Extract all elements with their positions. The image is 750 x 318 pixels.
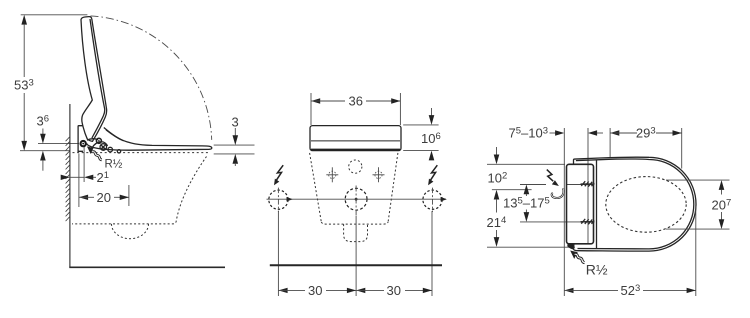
svg-text:523: 523 — [621, 283, 641, 298]
svg-text:R½: R½ — [586, 262, 608, 278]
svg-text:75–103: 75–103 — [509, 126, 549, 141]
svg-text:106: 106 — [421, 131, 441, 146]
svg-text:36: 36 — [37, 114, 50, 129]
svg-text:135–175: 135–175 — [503, 195, 550, 210]
svg-text:293: 293 — [636, 126, 656, 141]
svg-text:20: 20 — [97, 190, 111, 205]
svg-text:207: 207 — [712, 197, 732, 212]
svg-text:30: 30 — [308, 283, 322, 298]
svg-text:R½: R½ — [105, 158, 123, 170]
svg-text:36: 36 — [349, 94, 363, 109]
svg-text:21: 21 — [97, 170, 110, 185]
svg-text:214: 214 — [487, 215, 507, 230]
svg-text:533: 533 — [14, 78, 34, 93]
svg-text:3: 3 — [232, 115, 239, 130]
svg-text:102: 102 — [488, 170, 508, 185]
svg-text:30: 30 — [387, 283, 401, 298]
